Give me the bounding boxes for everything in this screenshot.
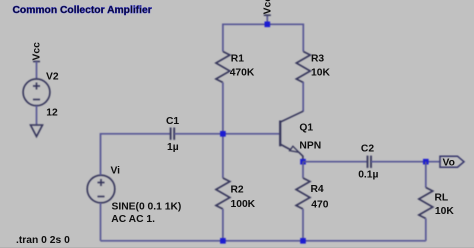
ground: [31, 125, 43, 137]
svg-text:470: 470: [311, 200, 328, 211]
wire Vi bottom: [100, 203, 102, 241]
svg-text:NPN: NPN: [299, 141, 321, 152]
svg-text:0.1µ: 0.1µ: [358, 170, 378, 181]
svg-text:R2: R2: [231, 185, 244, 196]
wire V2 top: [36, 62, 38, 79]
net flag Vcc (top): [264, 14, 271, 16]
svg-text:C2: C2: [361, 144, 374, 155]
svg-text:RL: RL: [435, 193, 449, 204]
wire Vcc stub: [266, 15, 268, 24]
wire R4 bottom: [302, 209, 304, 241]
junction bottom R4: [300, 238, 306, 244]
wire Vo node to RL: [425, 162, 427, 188]
svg-text:R4: R4: [311, 184, 324, 195]
svg-text:R1: R1: [231, 54, 244, 65]
wire emitter to C2: [303, 161, 367, 163]
resistor RL: [419, 188, 433, 219]
svg-text:Common Collector Amplifier: Common Collector Amplifier: [13, 5, 152, 16]
wire Vi top: [101, 134, 171, 175]
junction top rail: [265, 22, 271, 28]
wire R2 bottom: [222, 209, 224, 241]
wire R1 to node: [222, 83, 224, 179]
voltage source V2: [23, 79, 50, 106]
wire bottom rail: [101, 240, 426, 242]
svg-text:Vcc: Vcc: [32, 42, 43, 61]
svg-text:Vi: Vi: [111, 166, 121, 177]
resistor R4: [296, 178, 310, 209]
svg-text:R3: R3: [311, 54, 324, 65]
svg-text:100K: 100K: [231, 199, 256, 210]
wire R3 to collector: [302, 82, 304, 112]
junction bottom R2: [220, 238, 226, 244]
wire V2 bottom: [36, 106, 38, 126]
junction emitter: [300, 159, 306, 165]
transistor Q1: [280, 111, 303, 162]
svg-text:470K: 470K: [230, 68, 255, 79]
resistor R1: [216, 52, 230, 83]
wire C2 to Vo: [371, 161, 440, 163]
capacitor C1: [171, 128, 175, 140]
junction Vo node: [423, 159, 429, 165]
svg-text:.tran 0 2s 0: .tran 0 2s 0: [16, 235, 70, 246]
svg-text:1µ: 1µ: [167, 142, 179, 153]
capacitor C2: [368, 156, 372, 168]
junction base node: [220, 131, 226, 137]
svg-text:10K: 10K: [435, 206, 454, 217]
voltage source Vi: [87, 175, 115, 203]
resistor R2: [216, 178, 230, 209]
wire emitter to R4: [302, 162, 304, 178]
svg-text:V2: V2: [46, 72, 59, 83]
wire C1 to base: [174, 133, 280, 135]
svg-text:SINE(0 0.1 1K): SINE(0 0.1 1K): [112, 202, 182, 213]
resistor R3: [296, 52, 310, 83]
wire top rail: [223, 24, 303, 51]
svg-text:Vo: Vo: [443, 158, 455, 169]
net flag Vo: [440, 156, 464, 167]
svg-text:12: 12: [46, 108, 58, 119]
net flag Vcc (at V2): [33, 61, 40, 63]
svg-text:C1: C1: [166, 116, 179, 127]
svg-text:Q1: Q1: [299, 123, 313, 134]
svg-text:AC AC 1.: AC AC 1.: [111, 214, 155, 225]
svg-text:10K: 10K: [311, 68, 330, 79]
svg-text:Vcc: Vcc: [263, 0, 274, 14]
wire RL bottom: [425, 219, 427, 241]
